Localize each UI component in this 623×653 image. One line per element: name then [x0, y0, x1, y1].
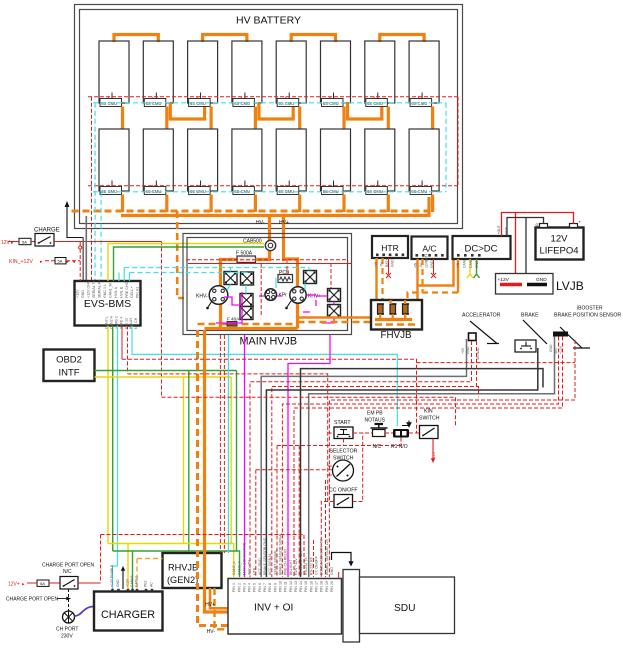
svg-text:GND: GND [536, 277, 547, 283]
svg-text:+12V CHG: +12V CHG [87, 280, 91, 298]
wire KIN +12V down red [431, 439, 436, 464]
battery 12V LIFEPO4 [536, 220, 584, 260]
wire FHVJB bus orange [375, 318, 412, 321]
wire CMU chain cyan left drop B [100, 192, 102, 281]
wire HV link module row1-4 to row2 [254, 107, 257, 130]
wire cyan control bus HVJB 2 [130, 272, 248, 274]
wire CAN yellow EVS to CAB500 [108, 244, 264, 282]
svg-text:PIN 9: PIN 9 [273, 583, 277, 592]
svg-text:PIN 5: PIN 5 [253, 583, 257, 592]
wire GND to LVJB [525, 218, 527, 285]
contactor KHV- [196, 286, 228, 305]
svg-text:6S CMU: 6S CMU [190, 101, 206, 106]
svg-text:PIN 12: PIN 12 [289, 581, 293, 592]
module EVS-BMS [75, 281, 141, 326]
svg-text:SWITCH: SWITCH [419, 416, 440, 422]
switch CHARGE [34, 228, 60, 247]
switch START [334, 420, 353, 439]
wire HV+ bus (orange solid) under row 2 [121, 197, 429, 216]
svg-text:RS-232 TX: RS-232 TX [304, 557, 308, 575]
wire charger GND arrow [121, 566, 125, 589]
sensor ACCELERATOR [462, 313, 501, 344]
wire HV bus bar top row1 modules 5-6 [291, 35, 335, 43]
wire HV bus bar top row1 modules 7-8 [380, 35, 424, 43]
wire red dashed riser charger [100, 535, 102, 584]
wire HV+ from RHVJB to INV [210, 588, 228, 608]
battery module B9 (row 2) [99, 129, 129, 195]
svg-text:LIFEPO4: LIFEPO4 [539, 246, 578, 257]
wire cyan down from EVS to EM PB [132, 326, 397, 427]
fuse FH3 [402, 304, 409, 314]
wire OBD2 CAN yellow [95, 376, 232, 378]
svg-text:HV+: HV+ [205, 602, 215, 608]
wire red dashed EVS to KIN row [122, 359, 417, 433]
wire red dashed EVS to START branch [128, 374, 335, 502]
svg-text:EM PB: EM PB [367, 411, 383, 417]
wire HV link module row1-6 to row2 [342, 107, 345, 130]
svg-text:NOTAUS: NOTAUS [365, 418, 386, 424]
svg-text:-IN: -IN [380, 262, 384, 267]
wire green riser B down [236, 371, 238, 552]
svg-text:KHV-: KHV- [196, 294, 208, 300]
sensor iBOOSTER brake position [553, 306, 621, 349]
wire HTR orange dashed return [381, 258, 383, 325]
battery module B11 (row 2) [188, 129, 218, 195]
wire red dashed riser x161 to switch cluster [161, 242, 163, 398]
svg-text:PIN 20: PIN 20 [330, 581, 334, 592]
wire HV- dashed from RHVJB to INV [215, 588, 229, 629]
svg-text:BRAKE SENSOR SIGNAL: BRAKE SENSOR SIGNAL [278, 532, 282, 575]
svg-text:+: + [579, 220, 582, 225]
wire cyan down from EVS to charger [113, 326, 118, 590]
svg-text:+12V: +12V [431, 451, 436, 461]
fuse FH1 [377, 304, 384, 314]
svg-text:BOMB1 SENSOR 12V: BOMB1 SENSOR 12V [325, 538, 329, 575]
svg-text:CC ON/OFF: CC ON/OFF [329, 488, 358, 494]
contactor KPr [265, 289, 287, 301]
wire 12V+ to charge port switch [27, 582, 37, 584]
svg-text:6S CMU: 6S CMU [323, 101, 339, 106]
svg-text:6S CMU: 6S CMU [367, 101, 383, 106]
wire HV- feed battery to MAIN HVJB [268, 217, 271, 240]
wire CMU daisy chain cyan row2 [93, 191, 446, 193]
svg-text:PIN 19: PIN 19 [325, 581, 329, 592]
module OBD2 INTF [44, 350, 95, 382]
wire ibooster aux red [294, 337, 563, 578]
wire red down from EVS [121, 326, 123, 360]
wire selector feeds [256, 466, 333, 475]
svg-text:INTF: INTF [58, 368, 79, 379]
wire accelerator signal red [272, 341, 477, 577]
wire HV link module row1-7 to row2 [387, 107, 390, 130]
wire FHVJB fuse drops [380, 300, 405, 320]
module HTR [372, 236, 408, 258]
gearbox shaft [343, 570, 360, 643]
svg-text:PIN 7: PIN 7 [263, 583, 267, 592]
svg-text:PIN 8: PIN 8 [268, 583, 272, 592]
wire red dashed down from EVS [127, 326, 129, 374]
wire chassis gray to EVS-BMS [82, 238, 84, 282]
module A/C [412, 237, 448, 260]
wire HV bus bar bottom row1 modules 2-3 [170, 103, 204, 119]
fuse FH2 [390, 304, 397, 314]
svg-text:CAN2_H: CAN2_H [237, 560, 241, 575]
wire HV drop module row2-8 to bus [431, 195, 434, 213]
battery module B8 (row 1) [409, 41, 439, 107]
wire FHVJB bus orange dashed [375, 323, 417, 326]
wire ibooster signal red [282, 337, 558, 578]
wire AC orange dashed [421, 259, 423, 293]
wire aux riser pin16 [313, 540, 315, 577]
wire AC orange feed [418, 259, 454, 286]
wire EVS-BMS +12V top pin [79, 242, 82, 282]
svg-text:CANH2: CANH2 [130, 575, 134, 587]
svg-text:PIN 13: PIN 13 [294, 581, 298, 592]
wire switch row links [353, 432, 420, 434]
svg-text:GND 1 L: GND 1 L [103, 284, 107, 298]
svg-text:EVS-BMS: EVS-BMS [84, 298, 131, 310]
svg-text:LVJB: LVJB [556, 279, 584, 293]
svg-text:PIN 10: PIN 10 [278, 581, 282, 592]
wire HV drop module row2-1 to bus [121, 195, 124, 213]
wire red solid distribution in HVJB [188, 263, 351, 265]
wire KHV+ down to bottom bus [296, 303, 299, 329]
svg-text:KIN: KIN [424, 409, 433, 415]
svg-text:6S CMU: 6S CMU [279, 101, 295, 106]
svg-text:+5V: +5V [461, 347, 465, 354]
svg-text:5A: 5A [40, 581, 45, 586]
wire red dashed START drop [328, 432, 334, 434]
wire HV drop module row2-2 to bus [165, 195, 168, 213]
wire AC orange into FHVJB [416, 286, 418, 301]
module CHARGER [94, 589, 163, 631]
switch EM PB NOTAUS [365, 411, 388, 451]
fuse F 40A [227, 317, 240, 326]
junction box MAIN HVJB [183, 234, 352, 348]
wire magenta right relays [303, 295, 316, 312]
wire HV link module row1-3 to row2 [210, 107, 213, 130]
svg-text:SERIAL TX: SERIAL TX [92, 279, 96, 298]
svg-text:MAIN HVJB: MAIN HVJB [240, 336, 298, 348]
wire cyan EVS pin to HVJB bus A [123, 268, 125, 282]
wire magenta relay drop [216, 292, 242, 323]
relay K7 right lower [328, 305, 341, 318]
svg-text:+OUT: +OUT [497, 225, 501, 234]
wire orange dashed battery drop to MAIN HVJB [177, 211, 184, 298]
svg-text:AC: AC [150, 582, 154, 587]
battery module B4 (row 1) [232, 41, 262, 107]
wire KHV+ coil stub [285, 301, 291, 309]
relay K6 right of KHV+ [328, 289, 341, 302]
wire yellow CAN down from EVS [107, 326, 109, 544]
svg-text:5A: 5A [22, 239, 27, 244]
wire R1 riser [299, 438, 401, 578]
fuse 5A charge port [37, 580, 49, 586]
svg-text:PIN 16: PIN 16 [309, 581, 313, 592]
wire yellow to charger and INV pin1 [108, 544, 234, 578]
wire cyan riser to RHVJB [227, 335, 229, 553]
wire KIN fuse to EVS-BMS [66, 259, 80, 265]
wire cyan EVS pin to HVJB bus B [129, 273, 131, 282]
svg-text:HV-: HV- [207, 629, 216, 635]
wire magenta to K6 K7 [316, 296, 334, 323]
wire HV link module row1-8 to row2 [431, 107, 434, 130]
svg-text:12V: 12V [551, 234, 569, 245]
sensor BRAKE switch [515, 313, 547, 353]
svg-text:(GEN2): (GEN2) [167, 575, 198, 585]
svg-text:N/C: N/C [63, 569, 72, 575]
contactor KHV+ [290, 287, 321, 303]
svg-text:PIN 15: PIN 15 [304, 581, 308, 592]
wire brake light black loop [301, 369, 544, 577]
wire cyan control bus HVJB [124, 267, 309, 269]
wire red dashed riser to RHVJB B [223, 335, 225, 553]
svg-text:6S CMU: 6S CMU [234, 101, 250, 106]
switch CHARGE PORT OPEN NC [42, 563, 94, 590]
wire green riser A down [188, 371, 190, 552]
svg-text:+12V: +12V [126, 578, 130, 587]
wire accelerator GND gray [261, 339, 466, 577]
svg-text:PIN 3: PIN 3 [242, 583, 246, 592]
wire charge switch to dashed riser [54, 241, 162, 243]
wire cyan EVS pin stub [118, 273, 120, 282]
svg-text:SDU: SDU [394, 603, 416, 614]
battery module B12 (row 2) [232, 129, 262, 195]
wire DCDC orange dashed to FHVJB [408, 293, 459, 325]
battery module B7 (row 1) [365, 41, 395, 107]
svg-text:ACC +5V: ACC +5V [248, 559, 252, 575]
battery module B14 (row 2) [321, 129, 351, 195]
wire HV+ feed battery to MAIN HVJB [282, 217, 285, 261]
switch KIN ignition [419, 409, 440, 439]
svg-text:R1N +12V: R1N +12V [294, 558, 298, 575]
motor SDU [360, 577, 455, 634]
wire yellow riser B down [230, 377, 232, 544]
wire fuse to CAB500 [256, 251, 270, 260]
svg-text:GND: GND [430, 260, 434, 268]
svg-text:NC CH: NC CH [134, 317, 138, 329]
wire charge port dashed link [68, 589, 70, 611]
wire DCDC CAN yellow stub [467, 259, 473, 278]
wire HV link module row1-1 to row2 [121, 107, 124, 130]
svg-text:START: START [334, 420, 351, 426]
wire 12V red to LVJB [515, 213, 517, 285]
svg-text:N/C: N/C [373, 444, 382, 450]
svg-text:5A: 5A [58, 259, 63, 264]
wire CMU chain cyan left drop A [94, 103, 96, 281]
fuse 5A KIN [55, 258, 66, 264]
battery module B2 (row 1) [143, 41, 173, 107]
svg-text:SERIAL RX: SERIAL RX [98, 279, 102, 298]
wire light orange charger feed [137, 558, 163, 560]
svg-text:+12V ENABLE: +12V ENABLE [110, 564, 114, 587]
wire orange dashed bottom bus [198, 323, 296, 326]
wire aux riser pin19 [325, 480, 327, 577]
wire 12V red rail [502, 213, 574, 237]
svg-text:PIN 17: PIN 17 [315, 581, 319, 592]
svg-text:CANL2: CANL2 [135, 576, 139, 587]
svg-text:SELECTOR: SELECTOR [330, 449, 358, 455]
wire SDU ground hook arrow [332, 553, 354, 567]
switch SELECTOR [330, 449, 358, 482]
svg-text:KIN_+12V: KIN_+12V [9, 259, 33, 265]
wire HV bus bar top row1 modules 1-2 [114, 35, 158, 43]
svg-text:R1 N/O: R1 N/O [391, 444, 408, 450]
wire CMU daisy chain cyan row1 [93, 102, 446, 104]
svg-text:OBD2: OBD2 [56, 355, 82, 366]
wire red dashed riser to RHVJB A [219, 335, 221, 553]
wire orange main left vertical [219, 258, 222, 329]
resistor PCB precharge [278, 270, 293, 283]
svg-text:+IN: +IN [456, 262, 460, 268]
relay K1 in HVJB [224, 272, 237, 285]
fuse F 500A [236, 251, 256, 263]
svg-text:CANL: CANL [462, 259, 466, 268]
relay K2 in HVJB [241, 272, 254, 285]
wire HV drop module row2-5 to bus [298, 195, 301, 213]
module DC>DC [453, 236, 511, 259]
svg-text:HTB: HTB [253, 567, 257, 575]
wire HV bus bar bottom row1 modules 4-5 [259, 103, 293, 119]
wire KIN 12V dashed [45, 260, 55, 262]
wire OBD2 CAN green [95, 370, 237, 372]
wire HTR red 12V stub [386, 258, 391, 278]
wire magenta KHV- coil to relay [224, 297, 240, 305]
relay R1 N/O [391, 421, 411, 451]
battery module B6 (row 1) [321, 41, 351, 107]
svg-text:12V+: 12V+ [8, 582, 20, 588]
svg-text:6S CMU: 6S CMU [146, 101, 162, 106]
svg-text:DC>DC: DC>DC [465, 244, 498, 255]
svg-text:230V: 230V [61, 634, 73, 640]
switch CC ONOFF [329, 488, 358, 508]
svg-text:PIN 11: PIN 11 [284, 581, 288, 592]
svg-text:BRAKE POSITION SENSOR: BRAKE POSITION SENSOR [554, 313, 621, 319]
wire DCDC orange feed [457, 259, 459, 293]
relay K5 in HVJB [240, 307, 253, 320]
wire orange pair to FHVJB [298, 316, 372, 319]
wire HV drop module row2-3 to bus [210, 195, 213, 213]
wire charge-port red riser [101, 535, 305, 578]
sensor CAB500 [243, 239, 276, 251]
svg-text:GND: GND [81, 290, 85, 298]
svg-text:PE2: PE2 [144, 580, 148, 587]
wire GND stub INV [338, 572, 340, 579]
wire BMS sense red right link [457, 97, 459, 186]
wire CMU chain cyan right loop [445, 103, 447, 192]
battery module B5 (row 1) [276, 41, 306, 107]
svg-text:iBOOSTER: iBOOSTER [577, 306, 603, 312]
svg-text:HVIL B: HVIL B [119, 286, 123, 298]
wire 12V to charge switch [8, 241, 19, 243]
junction box LVJB [496, 274, 554, 295]
wire HV orange dashed riser to INV HV- [198, 330, 229, 626]
wire HV drop module row2-6 to bus [342, 195, 345, 213]
svg-text:CAB500: CAB500 [243, 239, 262, 245]
svg-text:ACC GND: ACC GND [258, 558, 262, 575]
wire ibooster 12V supply red [329, 340, 575, 577]
junction box FHVJB [371, 300, 422, 341]
svg-text:RHVJB: RHVJB [168, 563, 198, 573]
wire CC to switch row riser [353, 433, 363, 502]
svg-text:GND: GND [116, 579, 120, 587]
svg-text:F 40A: F 40A [227, 317, 240, 322]
svg-text:A/C: A/C [422, 244, 436, 254]
wire magenta KPr link [259, 295, 282, 297]
svg-text:FHVJB: FHVJB [381, 330, 412, 341]
svg-text:ACCELERATOR: ACCELERATOR [462, 313, 501, 319]
wire HTR orange feed [375, 258, 377, 320]
svg-text:PIN A1: PIN A1 [136, 287, 140, 298]
svg-text:CHARGE PORT OPEN: CHARGE PORT OPEN [42, 563, 94, 569]
wire blue charger AC [75, 607, 95, 617]
wire green to charger and INV pin2 [113, 551, 240, 577]
svg-text:PIN 4: PIN 4 [248, 583, 252, 592]
junction box RHVJB GEN2 [163, 553, 222, 588]
battery module B13 (row 2) [276, 129, 306, 195]
wire yellow riser A down [183, 377, 185, 544]
wire HV link module row1-2 to row2 [165, 107, 168, 130]
wire orange bottom bus in HVJB [205, 327, 298, 330]
fuse 5A charge [19, 238, 31, 244]
wire magenta riser to INV pin11 [288, 335, 330, 577]
svg-text:+IN: +IN [414, 262, 418, 268]
wire BMS sense red dashed row1 [88, 96, 458, 98]
svg-text:ACC SIGNAL: ACC SIGNAL [268, 553, 272, 575]
wire KIN row to ibooster supply [417, 362, 576, 364]
relay K4 in HVJB [240, 294, 253, 307]
svg-text:START SIGNAL: START SIGNAL [273, 549, 277, 575]
wire HV bus bar top row1 modules 3-4 [203, 35, 247, 43]
svg-text:BAT+: BAT+ [385, 259, 389, 267]
svg-text:+IN: +IN [374, 261, 378, 267]
wire accel signal to KIN rail link [477, 387, 479, 398]
wire CC to INV [321, 502, 334, 578]
inverter INV + OI [228, 579, 342, 635]
relay K3 in HVJB [304, 271, 317, 284]
wire CAN green EVS to CAB500 [114, 247, 265, 281]
wire ibooster gray [309, 337, 555, 578]
svg-text:HV-: HV- [256, 220, 265, 226]
svg-text:BRAKE LT 12V: BRAKE LT 12V [299, 550, 303, 575]
svg-text:CAN2_L: CAN2_L [232, 561, 236, 575]
svg-text:6S CMU: 6S CMU [411, 101, 427, 106]
svg-text:GND: GND [549, 344, 553, 352]
svg-text:BRAKE: BRAKE [521, 313, 539, 319]
svg-text:+12V: +12V [498, 277, 510, 283]
svg-text:MAIN CONTACTOR: MAIN CONTACTOR [242, 542, 246, 575]
battery module B3 (row 1) [188, 41, 218, 107]
svg-text:CELL +: CELL + [130, 286, 134, 298]
wire HV drop module row2-4 to bus [254, 195, 257, 213]
svg-text:INV + OI: INV + OI [254, 603, 293, 614]
wire HV drop module row2-7 to bus [387, 195, 390, 213]
wire magenta riser to INV pin3 [244, 335, 246, 577]
svg-text:HV+: HV+ [279, 220, 289, 226]
wire GND rail [507, 218, 544, 237]
wire cyan drops in HVJB [227, 268, 309, 294]
svg-text:HTR: HTR [381, 243, 398, 253]
ground chassis arrow left [65, 201, 84, 238]
wire red dashed top in HVJB [186, 259, 348, 261]
svg-text:HV BATTERY: HV BATTERY [236, 15, 301, 27]
svg-text:PRE CHG: PRE CHG [125, 281, 129, 298]
svg-text:BKLIGHT: BKLIGHT [289, 559, 293, 575]
svg-text:GND: GND [475, 260, 479, 268]
svg-text:RS-232 RX: RS-232 RX [309, 556, 313, 575]
wire green CAN down from EVS [112, 326, 114, 552]
wire red dashed top rail to KIN [162, 397, 456, 425]
